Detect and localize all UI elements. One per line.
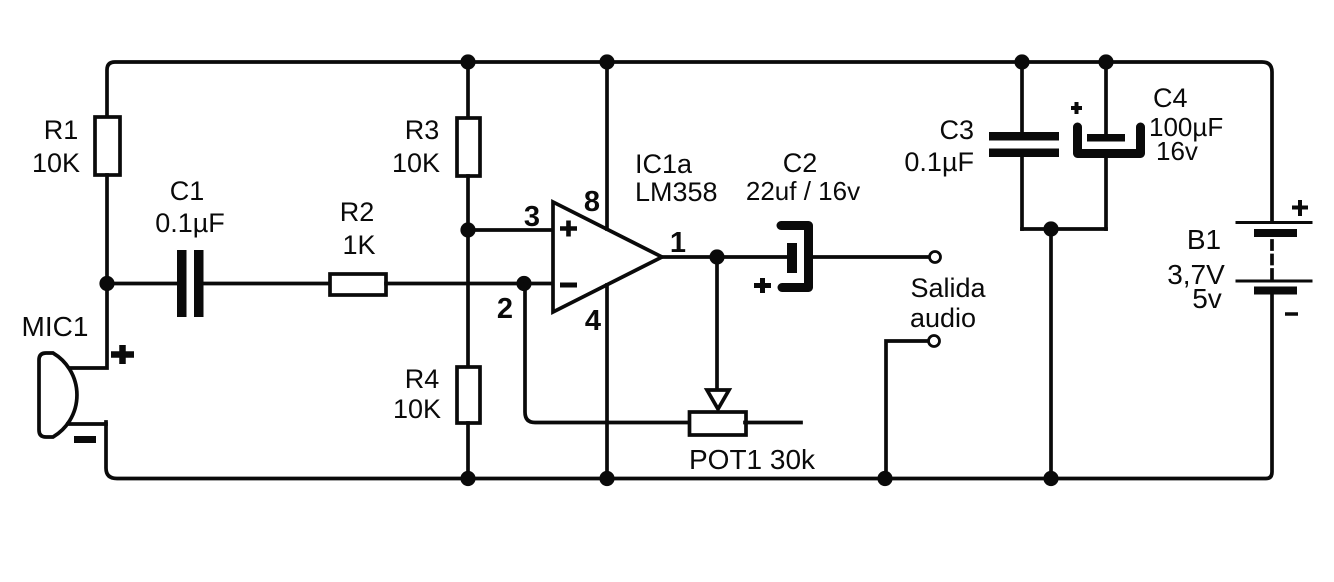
node inverting junction [516, 276, 531, 291]
svg-text:10K: 10K [392, 148, 440, 178]
svg-text:8: 8 [584, 186, 600, 218]
node input junction [99, 276, 114, 291]
wire lower terminal to ground rail [886, 341, 928, 478]
resistor R4 [457, 367, 480, 423]
node ground R4 [460, 471, 475, 486]
svg-text:22uf / 16v: 22uf / 16v [746, 176, 860, 206]
wire bottom rail [106, 294, 1272, 479]
wire POT1 right stub [745, 421, 801, 425]
wire output pin 1 [662, 255, 787, 259]
polarity B1 minus [1285, 312, 1298, 316]
wire output to wiper arrow [715, 257, 719, 389]
capacitor C3 [989, 132, 1059, 157]
wire C3 top [1020, 62, 1024, 132]
wire bias to non-inverting input [468, 228, 553, 232]
microphone MIC1 [39, 353, 77, 437]
polarity mic plus [111, 345, 134, 364]
svg-text:R4: R4 [405, 364, 440, 394]
wire C2 to output terminal [814, 255, 929, 259]
polarity B1 plus [1292, 200, 1308, 216]
op-amp minus input [560, 283, 577, 288]
capacitor C2 [781, 226, 809, 288]
node bias junction [460, 222, 475, 237]
op-amp plus input [560, 221, 577, 237]
svg-text:R2: R2 [340, 197, 375, 227]
polarity C4 plus [1071, 102, 1082, 114]
resistor R1 [95, 117, 120, 175]
wire POT1 left to inverting node [525, 284, 689, 423]
svg-text:R3: R3 [405, 115, 440, 145]
wire R3 top [466, 62, 470, 118]
svg-text:C1: C1 [170, 176, 205, 206]
polarity mic minus [74, 436, 96, 443]
wire mic minus lead [68, 422, 106, 426]
op-amp U1 triangle [553, 202, 662, 312]
wire R3 bottom to R4 top [466, 176, 470, 367]
resistor R2 [330, 274, 386, 295]
svg-text:4: 4 [585, 305, 601, 337]
capacitor C1 [177, 250, 204, 317]
wire R4 to ground rail [466, 423, 470, 478]
node output junction [709, 249, 724, 264]
svg-text:LM358: LM358 [635, 177, 718, 207]
node ground output terminal [877, 471, 892, 486]
svg-text:B1: B1 [1187, 224, 1221, 255]
wire R1 to input node [105, 175, 109, 283]
wire C4 top [1104, 62, 1108, 134]
terminal output upper [930, 252, 941, 263]
svg-text:5v: 5v [1192, 283, 1222, 314]
node supply C3 [1014, 54, 1029, 69]
wire junction to ground rail [1049, 229, 1053, 478]
wire R2 to inverting input [386, 282, 553, 286]
battery B1 [1237, 223, 1311, 295]
wire mic plus lead [66, 283, 107, 368]
node capacitor ground junction [1043, 221, 1058, 236]
node supply C4 [1098, 54, 1113, 69]
node supply pin8 [599, 54, 614, 69]
wire top rail [107, 62, 1272, 222]
svg-text:3: 3 [524, 201, 540, 233]
wire pin 8 supply [605, 62, 609, 229]
svg-text:C2: C2 [783, 148, 818, 178]
svg-text:10K: 10K [393, 394, 441, 424]
svg-text:C4: C4 [1153, 83, 1188, 113]
svg-text:1K: 1K [342, 230, 375, 260]
wire node to C1 [107, 282, 176, 286]
capacitor C4 [1078, 127, 1141, 154]
terminal output lower [929, 336, 940, 347]
svg-text:10K: 10K [32, 148, 80, 178]
svg-text:Salida: Salida [910, 273, 986, 303]
svg-text:POT1 30k: POT1 30k [689, 444, 816, 475]
node ground capacitors [1043, 471, 1058, 486]
svg-text:2: 2 [497, 293, 513, 325]
svg-text:16v: 16v [1156, 136, 1198, 166]
svg-text:MIC1: MIC1 [22, 311, 89, 342]
potentiometer POT1 [690, 412, 747, 435]
node ground pin4 [599, 471, 614, 486]
node supply R3 [460, 54, 475, 69]
svg-text:1: 1 [670, 227, 686, 259]
svg-text:IC1a: IC1a [635, 149, 693, 179]
polarity C2 plus [754, 278, 771, 293]
svg-text:0.1µF: 0.1µF [155, 208, 225, 238]
wire C3 bottom [1020, 157, 1024, 229]
wire capacitor ground join [1022, 227, 1106, 231]
resistor R3 [457, 118, 480, 176]
wire pin 4 ground [605, 285, 609, 478]
svg-text:audio: audio [910, 303, 976, 333]
svg-text:0.1µF: 0.1µF [904, 147, 974, 177]
svg-text:C3: C3 [939, 115, 974, 145]
wire C4 bottom [1104, 158, 1108, 229]
wire C1 to R2 [204, 282, 330, 286]
svg-text:R1: R1 [44, 115, 79, 145]
wiper arrow POT1 [707, 390, 729, 409]
